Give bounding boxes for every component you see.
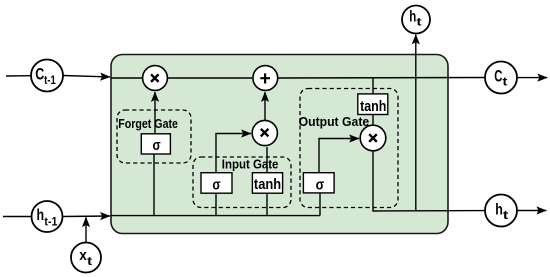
- svg-text:Forget Gate: Forget Gate: [118, 116, 178, 131]
- svg-text:t: t: [503, 76, 508, 88]
- wire: ht-1 to cell (arrow into cell edge): [63, 215, 110, 218]
- output tanh box: [358, 94, 388, 115]
- Input Gate dashed box: [193, 157, 291, 208]
- svg-text:t: t: [503, 210, 509, 222]
- wire: input tanh up to input multiply: [266, 147, 268, 173]
- wire: h line end up-leg to output sigma: [319, 193, 321, 216]
- wire: C line, add to Ct circle: [278, 77, 485, 80]
- wire: h line down-leg to input tanh: [266, 193, 268, 216]
- wire: h line down-leg to forget sigma: [153, 154, 155, 216]
- input tanh box: [252, 173, 282, 194]
- input sigma box: [201, 173, 232, 194]
- Forget Gate dashed box: [117, 110, 191, 163]
- svg-text:t: t: [416, 16, 422, 28]
- svg-text:Input Gate: Input Gate: [222, 156, 279, 171]
- wire: output multiply down and right to ht circle: [373, 151, 485, 211]
- wire: forget sigma up to forget multiply (arrow): [154, 92, 156, 134]
- input multiply node: [252, 120, 277, 145]
- wire: Ct output arrow: [518, 77, 548, 79]
- svg-text:t: t: [87, 256, 92, 268]
- wire: output tanh down to output multiply: [372, 114, 374, 125]
- svg-text:C: C: [494, 68, 502, 86]
- svg-text:C: C: [35, 65, 44, 83]
- wire: C line, forget multiply to add: [168, 77, 252, 79]
- svg-text:tanh: tanh: [360, 99, 386, 115]
- wire: Ct-1 input stub: [6, 75, 31, 77]
- output sigma box: [303, 173, 334, 194]
- wire: xt up into h line (arrow): [85, 217, 87, 242]
- wire: ht output arrow right: [517, 210, 546, 212]
- wire: C line down-leg to output tanh: [372, 78, 374, 96]
- output multiply node: [360, 125, 386, 151]
- forget multiply node: [143, 66, 168, 91]
- svg-text:h: h: [409, 9, 416, 26]
- svg-text:σ: σ: [212, 178, 220, 194]
- node ht (top): [402, 6, 430, 34]
- LSTM cell body: [111, 55, 448, 234]
- Output Gate dashed box: [300, 89, 398, 208]
- wire: input sigma elbow to input multiply (arrow): [216, 134, 251, 174]
- node Ct: [485, 62, 517, 94]
- wire: Ct-1 to cell (arrow into cell edge): [63, 76, 110, 77]
- svg-text:Output Gate: Output Gate: [299, 114, 370, 129]
- svg-text:tanh: tanh: [254, 177, 281, 193]
- wire: input multiply up to add (arrow): [264, 92, 266, 120]
- forget sigma box: [141, 134, 170, 154]
- node ht (right): [485, 195, 517, 227]
- node Ct-1: [31, 60, 63, 92]
- svg-text:σ: σ: [316, 178, 325, 194]
- node ht-1: [32, 201, 63, 232]
- add node: [253, 66, 278, 91]
- wire: ht-1 input stub: [3, 216, 32, 218]
- svg-text:t-1: t-1: [44, 216, 58, 228]
- svg-text:h: h: [495, 201, 503, 218]
- svg-text:h: h: [37, 207, 45, 224]
- wire: C line inside cell, edge to forget multiply: [111, 77, 142, 79]
- svg-text:t-1: t-1: [44, 75, 56, 87]
- svg-text:σ: σ: [153, 138, 161, 154]
- wire: h line inside cell, edge to output sigma drop: [111, 215, 320, 217]
- node xt: [71, 243, 101, 273]
- wire: h line down-leg to input sigma: [215, 193, 217, 216]
- wire: ht branch up to top ht circle (arrow): [415, 35, 417, 212]
- wire: output sigma elbow to output multiply (arrow): [319, 139, 359, 176]
